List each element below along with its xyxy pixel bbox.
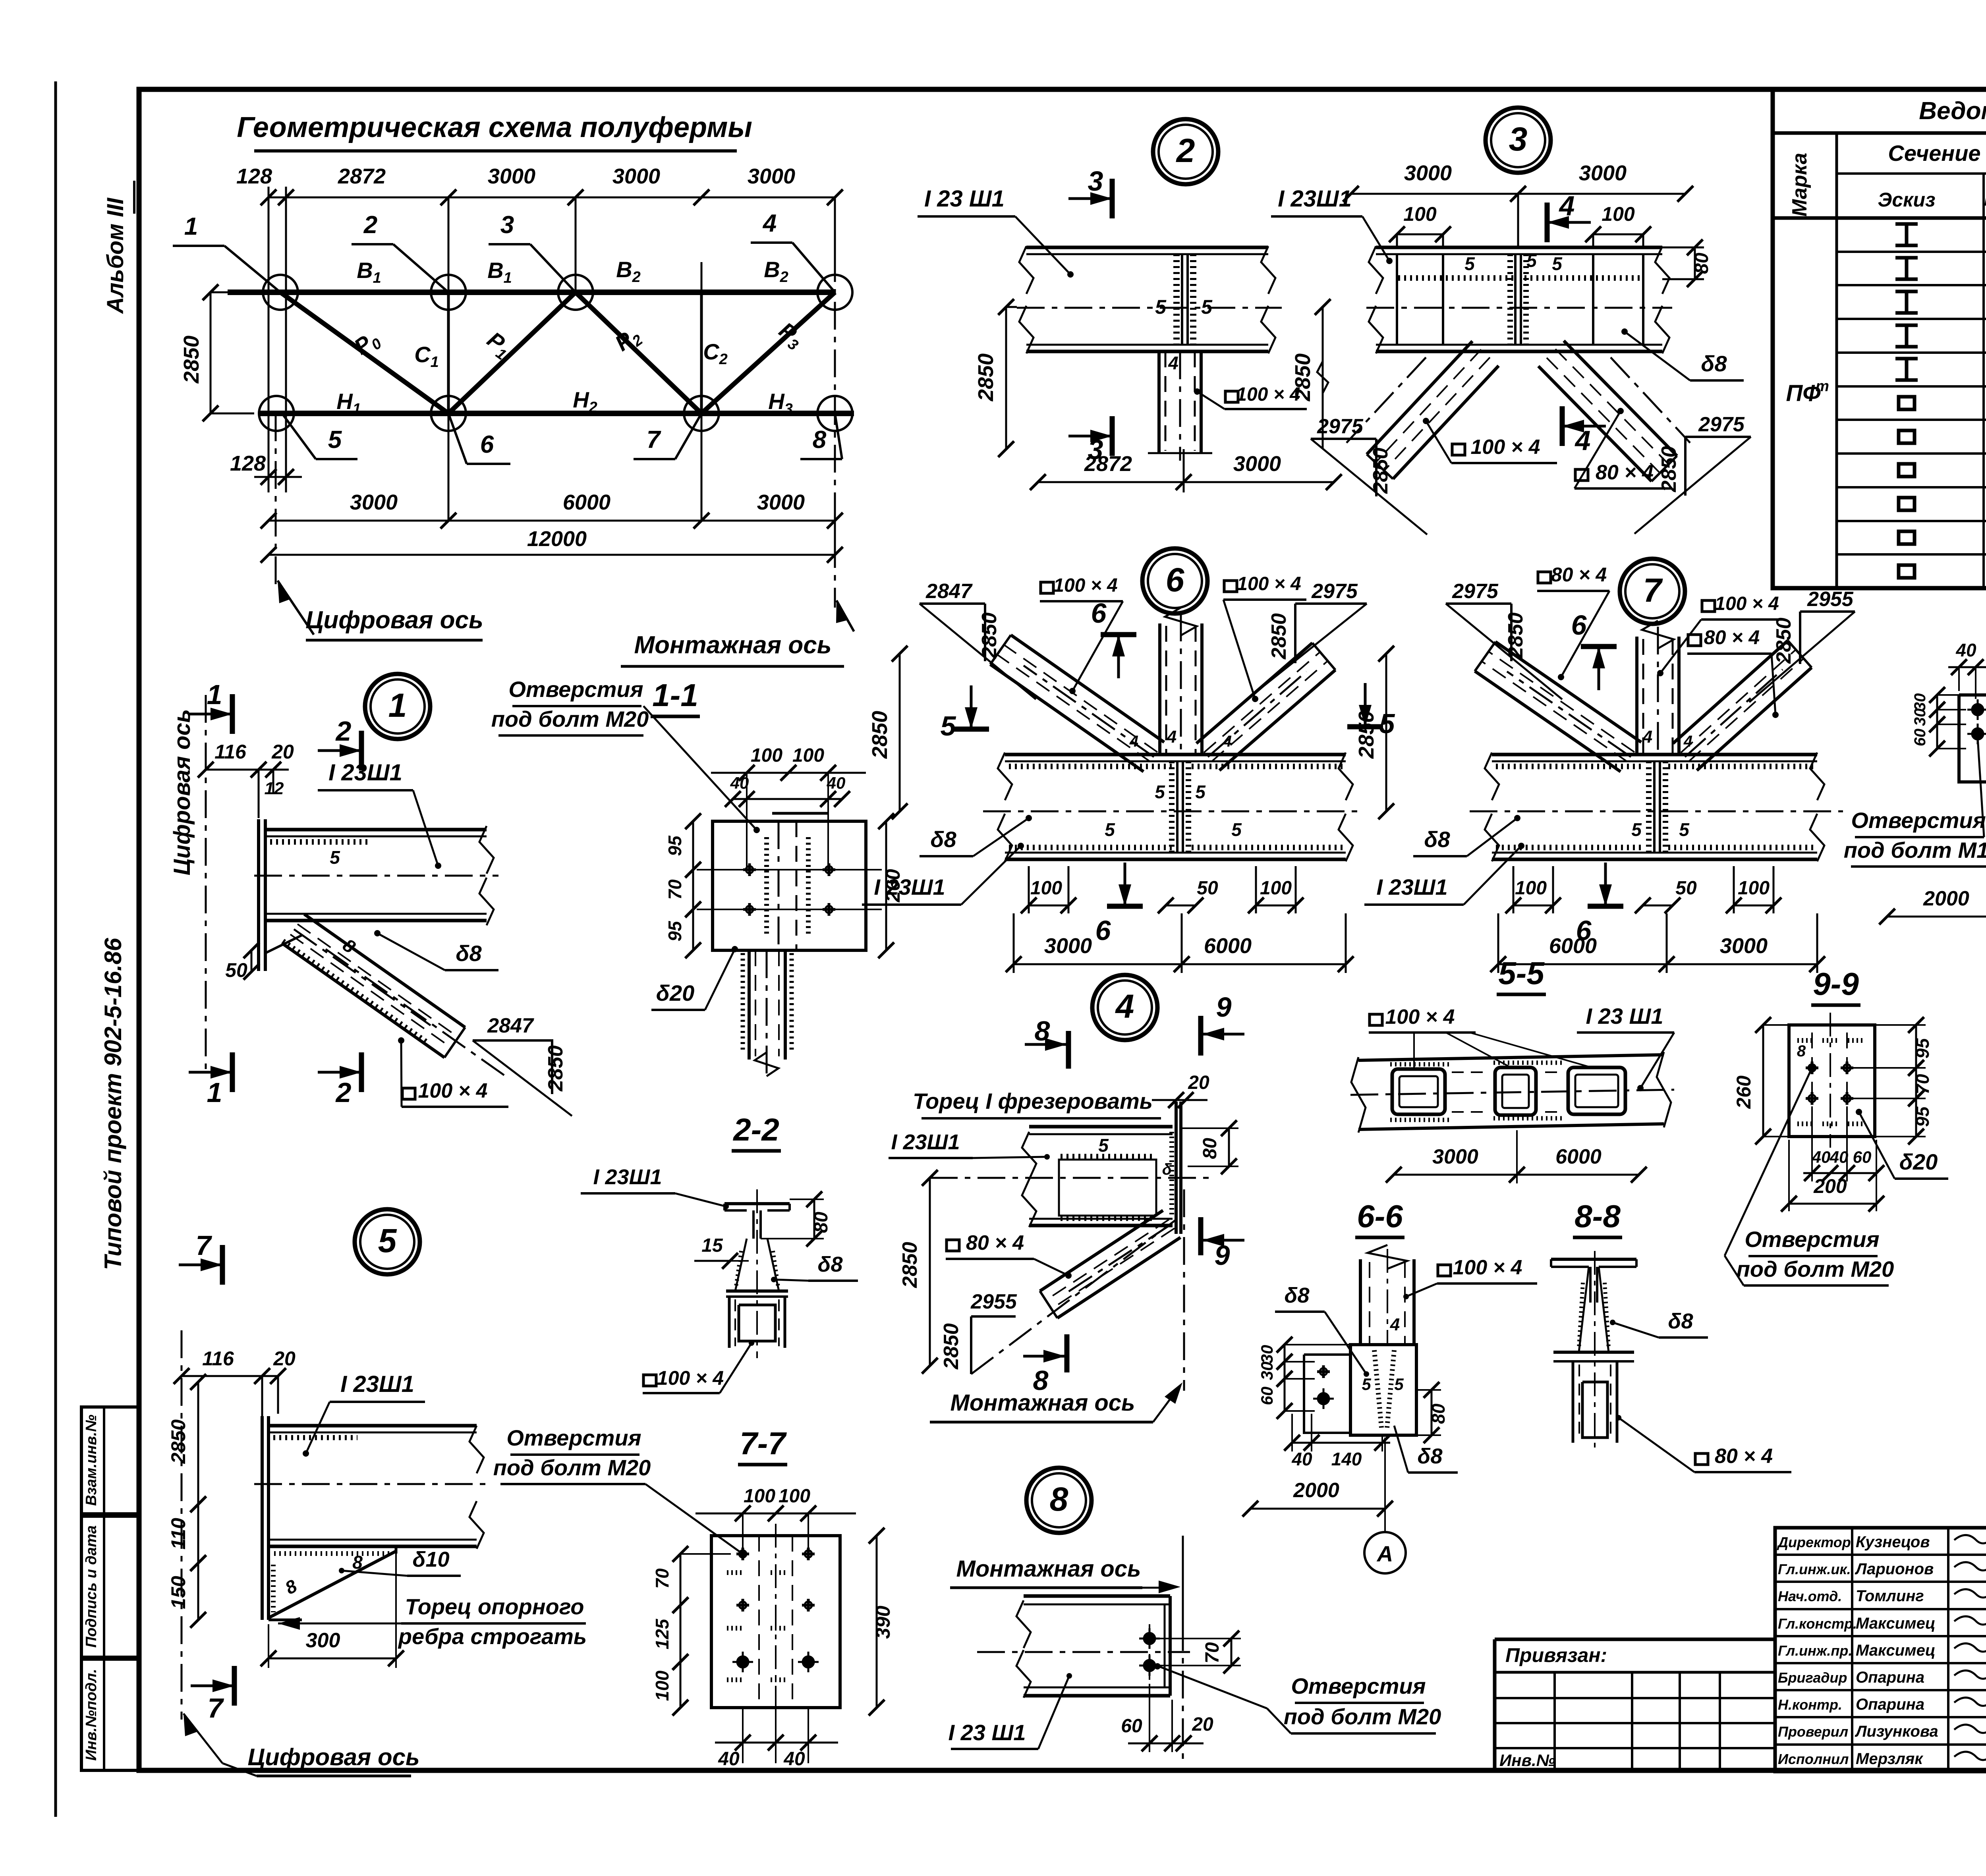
detail 6 bottom dims	[1029, 905, 1068, 907]
svg-text:2975: 2975	[1698, 413, 1745, 436]
svg-text:4: 4	[1129, 733, 1138, 750]
diagonal P1	[448, 292, 576, 413]
svg-text:2850: 2850	[180, 336, 203, 384]
svg-text:4: 4	[1115, 988, 1134, 1025]
svg-text:2: 2	[1176, 132, 1195, 169]
svg-text:Сечение: Сечение	[1888, 141, 1980, 166]
svg-text:Подпись и дата: Подпись и дата	[83, 1525, 100, 1648]
svg-text:200: 200	[1813, 1175, 1847, 1197]
svg-text:2-2: 2-2	[732, 1112, 779, 1147]
svg-text:2955: 2955	[970, 1290, 1017, 1313]
section 5-5 dims 3000/6000	[1394, 1174, 1639, 1176]
svg-text:2850: 2850	[978, 612, 1001, 659]
svg-text:2000: 2000	[1293, 1479, 1339, 1502]
svg-text:2850: 2850	[1291, 353, 1315, 401]
detail 4 label 80x4	[947, 1240, 959, 1251]
detail 4 end plate	[1175, 1102, 1178, 1234]
bottom dim 12000	[269, 554, 835, 556]
detail 7 label 100x4	[1702, 600, 1715, 612]
svg-text:100: 100	[1403, 203, 1437, 225]
detail 1 slope triangle 2847/2850	[473, 1040, 552, 1094]
svg-text:Эскиз: Эскиз	[1878, 189, 1935, 211]
svg-text:6: 6	[1095, 915, 1111, 946]
svg-text:5: 5	[1464, 253, 1475, 274]
svg-text:100: 100	[1602, 203, 1635, 225]
detail 3 label 100x4	[1452, 444, 1465, 455]
svg-text:Инв.№: Инв.№	[1499, 1751, 1555, 1770]
detail 3 section marks 4-4	[1545, 203, 1550, 242]
section 3-3 dim 2000 + axis A	[1887, 916, 1986, 918]
svg-text:2: 2	[335, 1077, 352, 1108]
detail 7 bottom dims	[1513, 905, 1553, 907]
svg-text:100: 100	[792, 745, 824, 766]
stamp column boxes	[81, 1407, 139, 1514]
svg-text:3: 3	[500, 211, 514, 239]
detail 4 gusset weld zone	[1059, 1160, 1156, 1216]
svg-text:2850: 2850	[1267, 613, 1291, 660]
svg-text:390: 390	[872, 1606, 894, 1639]
svg-text:Мерзляк: Мерзляк	[1856, 1750, 1923, 1768]
svg-text:100: 100	[751, 745, 782, 766]
svg-text:4: 4	[762, 210, 777, 237]
svg-text:50: 50	[1675, 878, 1697, 899]
detail 1 end plate	[257, 819, 260, 950]
detail 6 section marks 6	[1101, 632, 1136, 637]
svg-text:2975: 2975	[1311, 580, 1358, 603]
detail 6 left diagonal	[990, 664, 1144, 772]
svg-text:4: 4	[1168, 353, 1178, 373]
svg-text:δ8: δ8	[456, 941, 482, 966]
svg-text:40: 40	[783, 1749, 805, 1770]
svg-text:δ20: δ20	[656, 980, 694, 1006]
svg-text:40: 40	[1291, 1449, 1312, 1469]
detail 2 label 100x4	[1225, 391, 1238, 402]
svg-text:1: 1	[388, 687, 407, 724]
svg-text:40: 40	[1830, 1148, 1849, 1166]
section 8-8 tube below	[1572, 1361, 1575, 1443]
section 6-6 label 100x4	[1438, 1265, 1451, 1276]
svg-text:128: 128	[236, 164, 272, 188]
section 8-8 bracket flange	[1553, 1351, 1634, 1354]
svg-text:6: 6	[480, 431, 494, 458]
detail 3 dim 80 right	[1694, 247, 1696, 279]
svg-text:80: 80	[1691, 253, 1712, 274]
svg-text:5: 5	[1098, 1135, 1109, 1156]
svg-text:2850: 2850	[1772, 618, 1795, 664]
section 7-7 bottom dims 40/40	[715, 1742, 838, 1744]
svg-text:2975: 2975	[1452, 580, 1499, 603]
section 5-5 member	[1358, 1055, 1664, 1060]
svg-text:100 × 4: 100 × 4	[418, 1079, 488, 1102]
svg-text:под болт М20: под болт М20	[491, 706, 649, 731]
detail 6 beam	[1005, 753, 1346, 757]
detail circle 4	[1092, 975, 1157, 1040]
svg-text:2872: 2872	[338, 164, 386, 188]
detail 8 beam	[1024, 1594, 1170, 1598]
svg-text:3000: 3000	[1720, 934, 1768, 958]
section 2-2 dims	[813, 1199, 815, 1239]
svg-text:5: 5	[1552, 253, 1563, 274]
detail 7 dim 2850 left	[1385, 654, 1387, 811]
svg-text:I 23Ш1: I 23Ш1	[891, 1130, 960, 1154]
svg-text:128: 128	[230, 452, 266, 475]
section 3-3 top dims 40/140/150	[1948, 666, 1986, 668]
section 6-6 gusset	[1350, 1345, 1416, 1435]
svg-text:100 × 4: 100 × 4	[1471, 436, 1540, 459]
svg-text:9-9: 9-9	[1813, 966, 1859, 1002]
detail 3 top dims 3000/3000	[1351, 193, 1685, 195]
svg-text:3000: 3000	[350, 490, 398, 514]
detail 5 section marks 7	[220, 1245, 225, 1285]
svg-text:3000: 3000	[748, 164, 795, 188]
section 3-3 left dims 30/30/60	[1936, 695, 1938, 710]
svg-text:4: 4	[1223, 733, 1232, 750]
svg-text:δ8: δ8	[1424, 827, 1450, 852]
svg-text:3000: 3000	[488, 164, 535, 188]
svg-text:Максимец: Максимец	[1856, 1615, 1936, 1632]
detail circle 2	[1153, 119, 1218, 184]
svg-text:Ларионов: Ларионов	[1855, 1560, 1934, 1578]
svg-text:30: 30	[1258, 1362, 1276, 1380]
detail 8 dim 70	[1231, 1639, 1233, 1666]
svg-text:40: 40	[827, 774, 846, 792]
svg-text:2847: 2847	[925, 580, 973, 603]
section 7-7 dims	[695, 1513, 856, 1515]
svg-text:80 × 4: 80 × 4	[1551, 564, 1607, 586]
svg-text:Исполнил: Исполнил	[1778, 1751, 1849, 1767]
detail 4 beam	[1029, 1125, 1173, 1129]
svg-text:5: 5	[1105, 819, 1115, 840]
detail circle 6	[1142, 548, 1207, 614]
section 2-2 label 100x4	[643, 1375, 656, 1386]
svg-text:4: 4	[1167, 727, 1177, 747]
svg-text:100: 100	[1515, 878, 1547, 899]
svg-text:100: 100	[1738, 878, 1770, 899]
section 7-7 bolts	[736, 1553, 749, 1556]
detail 6 centre splice	[1176, 761, 1178, 853]
svg-text:δ8: δ8	[1668, 1309, 1693, 1333]
svg-text:под болт М20: под болт М20	[1737, 1256, 1894, 1282]
truss bottom chord H1-H3	[259, 411, 854, 416]
svg-text:Привязан:: Привязан:	[1505, 1644, 1607, 1666]
svg-text:110: 110	[167, 1518, 189, 1550]
svg-text:Н.контр.: Н.контр.	[1778, 1697, 1842, 1713]
svg-text:Цифровая ось: Цифровая ось	[169, 709, 195, 876]
svg-text:9: 9	[1215, 1240, 1230, 1271]
svg-text:7: 7	[1643, 571, 1663, 609]
section 9-9 inner dims 40/40/60	[1803, 1172, 1876, 1174]
svg-text:т: т	[1816, 378, 1829, 395]
svg-text:Монтажная ось: Монтажная ось	[956, 1556, 1141, 1582]
detail 7 slope triangles	[1446, 602, 1511, 605]
svg-text:5: 5	[1201, 296, 1213, 318]
svg-text:3: 3	[1088, 166, 1103, 197]
svg-text:Отверстия: Отверстия	[506, 1425, 641, 1450]
svg-text:60: 60	[1911, 729, 1929, 747]
svg-text:20: 20	[273, 1347, 296, 1370]
svg-text:40: 40	[730, 774, 749, 792]
detail 7 beam	[1492, 753, 1817, 757]
svg-text:3000: 3000	[1432, 1145, 1478, 1168]
section 1-1 tube below	[748, 950, 751, 1060]
detail 3 slope triangles	[1311, 438, 1376, 440]
detail 6 slope triangles	[920, 602, 985, 605]
svg-text:2850: 2850	[1354, 711, 1378, 759]
svg-text:δ10: δ10	[412, 1548, 449, 1571]
truss top chord B1-B2	[228, 290, 835, 295]
svg-text:2: 2	[335, 716, 352, 747]
svg-text:δ8: δ8	[930, 827, 956, 852]
svg-text:5: 5	[1394, 1375, 1404, 1393]
svg-text:9: 9	[1216, 992, 1232, 1023]
detail 2 section marks 3-3	[1110, 179, 1115, 218]
svg-text:150: 150	[167, 1576, 189, 1609]
svg-text:Типовой проект 902-5-16.86: Типовой проект 902-5-16.86	[100, 938, 126, 1270]
svg-text:δ: δ	[1162, 1161, 1172, 1178]
svg-text:8: 8	[1050, 1480, 1068, 1518]
section 1-1 dims	[711, 772, 866, 774]
svg-text:100: 100	[1260, 878, 1292, 899]
svg-text:100: 100	[744, 1486, 775, 1507]
detail 4 dim 2850 left	[929, 1178, 931, 1366]
svg-text:δ8: δ8	[1418, 1444, 1443, 1468]
detail 5 left dims 2850/110/150	[197, 1382, 199, 1504]
svg-text:20: 20	[1192, 1714, 1213, 1735]
svg-text:Гл.констр.: Гл.констр.	[1778, 1615, 1857, 1632]
detail 5 dims 116/20	[182, 1375, 278, 1377]
svg-text:100: 100	[779, 1486, 810, 1507]
svg-text:Торец опорного: Торец опорного	[405, 1594, 584, 1619]
detail 2 post square 100x4	[1157, 351, 1161, 453]
svg-text:I 23 Ш1: I 23 Ш1	[924, 186, 1005, 212]
svg-text:70: 70	[1912, 1074, 1933, 1094]
detail 3 dim 2850 left	[1322, 307, 1324, 449]
svg-text:5: 5	[328, 426, 342, 454]
svg-text:80 × 4: 80 × 4	[1704, 626, 1760, 648]
svg-text:80: 80	[1428, 1403, 1449, 1424]
detail 7 label 80x4 right	[1688, 635, 1701, 646]
svg-text:Цифровая ось: Цифровая ось	[305, 606, 483, 634]
svg-text:Поз.: Поз.	[1984, 190, 1986, 210]
svg-text:2955: 2955	[1807, 588, 1854, 611]
svg-text:2975: 2975	[1317, 415, 1364, 438]
svg-text:12000: 12000	[527, 527, 587, 551]
svg-text:60: 60	[1258, 1387, 1276, 1405]
svg-text:100 × 4: 100 × 4	[657, 1367, 724, 1389]
svg-text:под болт М16: под болт М16	[1844, 838, 1986, 863]
section 8-8 I beam top	[1551, 1258, 1636, 1261]
detail 1 dims 116/20/12	[206, 769, 289, 771]
elements table (vedomost elementov)	[1773, 89, 1986, 588]
svg-text:Монтажная ось: Монтажная ось	[950, 1390, 1135, 1416]
detail 7 label 80x4	[1538, 572, 1551, 583]
svg-text:2850: 2850	[1504, 612, 1527, 659]
svg-text:100 × 4: 100 × 4	[1453, 1256, 1522, 1279]
svg-text:5: 5	[1679, 819, 1690, 840]
svg-text:30: 30	[1258, 1345, 1276, 1364]
svg-text:3000: 3000	[1579, 161, 1627, 185]
svg-text:20: 20	[271, 741, 294, 763]
section 8-8 label 80x4	[1695, 1453, 1708, 1465]
svg-text:116: 116	[214, 741, 247, 763]
svg-text:δ8: δ8	[818, 1253, 843, 1276]
detail circle 3	[1486, 108, 1551, 173]
section 5-5 squares	[1392, 1069, 1445, 1114]
svg-text:1-1: 1-1	[652, 677, 698, 713]
svg-text:Опарина: Опарина	[1856, 1696, 1924, 1713]
detail 3 diagonals	[1393, 366, 1499, 479]
svg-text:3: 3	[1509, 120, 1528, 158]
svg-text:под болт М20: под болт М20	[1284, 1704, 1441, 1729]
vertical C2	[700, 292, 703, 413]
section 9-9 dim 200	[1789, 1203, 1876, 1205]
svg-text:140: 140	[1331, 1449, 1362, 1469]
svg-text:6: 6	[1091, 598, 1107, 629]
svg-text:3000: 3000	[1404, 161, 1452, 185]
svg-text:2850: 2850	[1658, 446, 1681, 492]
section 9-9 dims	[1762, 1025, 1764, 1137]
detail circle 1	[365, 674, 430, 739]
svg-text:Отверстия: Отверстия	[508, 677, 643, 702]
svg-text:2850: 2850	[868, 711, 892, 759]
detail 4 slope triangle 2955/2850	[970, 1316, 972, 1374]
svg-text:Геометрическая схема полуфе: Геометрическая схема полуфермы	[237, 112, 752, 143]
svg-text:7: 7	[208, 1693, 224, 1724]
svg-text:I 23Ш1: I 23Ш1	[593, 1165, 662, 1189]
section 7-7 weld crosses	[727, 1570, 743, 1575]
section 9-9 weld marks	[1797, 1038, 1813, 1043]
svg-text:8: 8	[1035, 1015, 1050, 1046]
svg-text:60: 60	[1853, 1148, 1872, 1166]
diagonal P2	[576, 292, 701, 413]
svg-text:1: 1	[207, 1077, 222, 1108]
svg-text:70: 70	[1202, 1642, 1223, 1664]
svg-text:А: А	[1376, 1541, 1393, 1566]
svg-text:Гл.инж.пр.: Гл.инж.пр.	[1778, 1642, 1852, 1659]
svg-text:I 23Ш1: I 23Ш1	[340, 1371, 414, 1397]
svg-text:δ8: δ8	[1701, 351, 1727, 376]
section 6-6 dims bottom 40/140	[1292, 1442, 1390, 1444]
svg-text:4: 4	[1559, 190, 1575, 221]
svg-text:Взам.инв.№: Взам.инв.№	[83, 1415, 100, 1506]
svg-text:Гл.инж.ик.: Гл.инж.ик.	[1778, 1561, 1851, 1577]
svg-text:100 × 4: 100 × 4	[1053, 575, 1117, 596]
detail 5 end plate	[261, 1416, 264, 1620]
svg-text:Лизункова: Лизункова	[1855, 1723, 1938, 1740]
svg-text:3000: 3000	[612, 164, 660, 188]
section 5-5 labels	[1370, 1014, 1382, 1025]
svg-text:8: 8	[813, 426, 827, 454]
svg-text:Проверил: Проверил	[1778, 1724, 1848, 1740]
svg-text:70: 70	[652, 1568, 672, 1589]
svg-text:3000: 3000	[1044, 934, 1092, 958]
svg-text:Торец I фрезеровать: Торец I фрезеровать	[913, 1089, 1153, 1114]
svg-text:Бригадир: Бригадир	[1778, 1669, 1847, 1686]
svg-text:2872: 2872	[1084, 452, 1132, 476]
svg-text:6-6: 6-6	[1357, 1199, 1403, 1234]
svg-text:30: 30	[1911, 693, 1929, 711]
svg-text:5: 5	[1195, 782, 1206, 802]
svg-text:Отверстия: Отверстия	[1291, 1673, 1426, 1698]
detail 4 dim 20	[1152, 1099, 1207, 1101]
svg-text:1: 1	[184, 213, 198, 240]
svg-text:8-8: 8-8	[1575, 1199, 1621, 1234]
detail 4 montage axis line	[1183, 1189, 1185, 1391]
svg-text:5: 5	[1379, 708, 1395, 739]
svg-text:80 × 4: 80 × 4	[966, 1231, 1024, 1255]
svg-text:Опарина: Опарина	[1856, 1669, 1924, 1686]
detail 2 beam	[1026, 246, 1268, 249]
section 9-9 bolts	[1806, 1067, 1818, 1069]
section 3-3 bolts	[1972, 704, 1983, 715]
svg-text:7: 7	[647, 426, 661, 454]
sheet outer edge line	[54, 81, 57, 1817]
signature table	[1775, 1528, 1986, 1772]
svg-text:I 23 Ш1: I 23 Ш1	[1586, 1004, 1663, 1029]
svg-text:Инв.№подл.: Инв.№подл.	[83, 1669, 100, 1760]
detail 1 vertical axis	[205, 695, 207, 1072]
svg-text:6: 6	[1166, 561, 1185, 598]
detail 1 gusset under beam	[257, 950, 260, 971]
svg-text:60: 60	[1121, 1716, 1142, 1737]
svg-text:260: 260	[1733, 1075, 1755, 1109]
detail 7 centre splice	[1653, 761, 1656, 853]
privyazan table	[1495, 1638, 1775, 1641]
svg-text:2847: 2847	[487, 1014, 534, 1037]
detail 3 label 80x4	[1575, 469, 1588, 481]
svg-text:5: 5	[1631, 819, 1642, 840]
svg-text:2850: 2850	[940, 1323, 963, 1370]
detail circle 5	[355, 1209, 420, 1274]
svg-text:Томлинг: Томлинг	[1856, 1587, 1924, 1605]
detail 1 diagonal strip	[304, 914, 465, 1027]
svg-text:5-5: 5-5	[1498, 955, 1545, 991]
svg-text:20: 20	[1188, 1072, 1209, 1093]
svg-text:80 × 4: 80 × 4	[1715, 1445, 1773, 1468]
svg-text:1: 1	[207, 679, 222, 710]
detail 5 axis	[181, 1330, 183, 1720]
detail 8 bolts	[1144, 1633, 1155, 1644]
section 6-6 post	[1359, 1259, 1362, 1345]
section 6-6 bolts	[1317, 1370, 1330, 1373]
svg-text:I 23 Ш1: I 23 Ш1	[949, 1720, 1026, 1745]
svg-text:2000: 2000	[1923, 887, 1969, 910]
svg-text:260: 260	[882, 869, 904, 903]
svg-text:7: 7	[196, 1230, 213, 1261]
detail 2 bottom dims 2872/3000	[1038, 481, 1334, 483]
detail 2 dim 2850	[1005, 307, 1007, 449]
svg-text:80 × 4: 80 × 4	[1596, 461, 1654, 484]
svg-text:δ8: δ8	[1285, 1283, 1310, 1307]
svg-text:125: 125	[652, 1618, 672, 1649]
section 9-9 plate	[1789, 1025, 1875, 1137]
svg-text:80: 80	[811, 1212, 832, 1233]
detail circle 7	[1620, 559, 1685, 624]
node circles	[263, 275, 298, 310]
svg-text:δ20: δ20	[1899, 1149, 1938, 1174]
vertical C1	[447, 292, 450, 413]
svg-text:50: 50	[1197, 878, 1218, 899]
svg-text:5: 5	[1155, 296, 1167, 318]
svg-text:95: 95	[1912, 1038, 1933, 1059]
section 1-1 plate	[713, 821, 866, 950]
svg-text:5: 5	[1155, 782, 1165, 802]
svg-text:3000: 3000	[1233, 452, 1281, 476]
svg-text:2: 2	[363, 211, 377, 239]
detail 8 dims 60/20	[1128, 1743, 1204, 1745]
detail 1 section marks	[230, 694, 235, 734]
svg-text:2850: 2850	[167, 1419, 189, 1464]
